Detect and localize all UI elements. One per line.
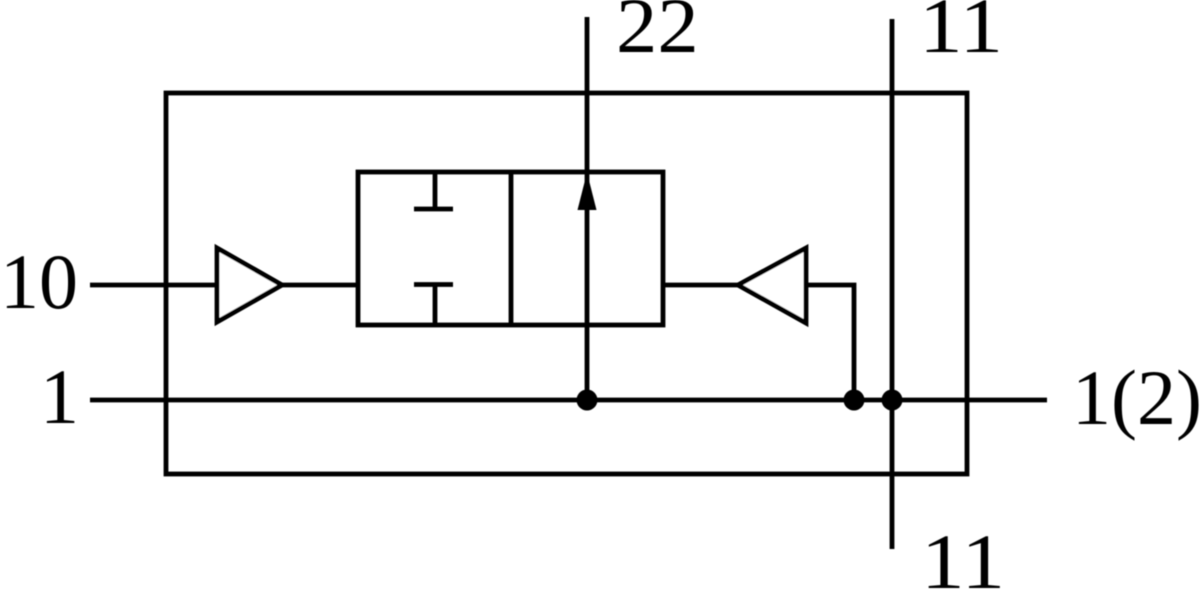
junction node at 11 line	[882, 390, 903, 411]
svg-text:1(2): 1(2)	[1072, 354, 1200, 441]
wire port 10 lead	[90, 283, 217, 288]
valve body divider	[509, 172, 514, 325]
junction node at 22 line	[577, 390, 598, 411]
svg-text:10: 10	[0, 238, 78, 325]
enclosure box	[166, 93, 967, 474]
upper seat symbol T	[414, 172, 453, 209]
valve body rectangle	[358, 172, 663, 325]
wire right triangle to port 1 line	[804, 285, 854, 400]
junction node at right triangle wire	[844, 390, 865, 411]
wire port 22 vertical line	[585, 17, 590, 400]
lower seat symbol T	[414, 285, 453, 324]
wire valve to right triangle	[663, 283, 738, 288]
check valve right (triangle pointing left)	[738, 248, 806, 323]
flow arrow in valve right chamber	[578, 173, 597, 211]
wire port 1 horizontal line	[90, 398, 1047, 403]
svg-text:11: 11	[921, 518, 1005, 590]
svg-text:1: 1	[40, 353, 79, 440]
svg-text:11: 11	[919, 0, 1003, 69]
wire port 11 vertical line	[890, 19, 895, 549]
svg-text:22: 22	[616, 0, 699, 69]
wire triangle to valve body	[280, 283, 358, 288]
check valve left (triangle pointing right)	[217, 248, 282, 322]
